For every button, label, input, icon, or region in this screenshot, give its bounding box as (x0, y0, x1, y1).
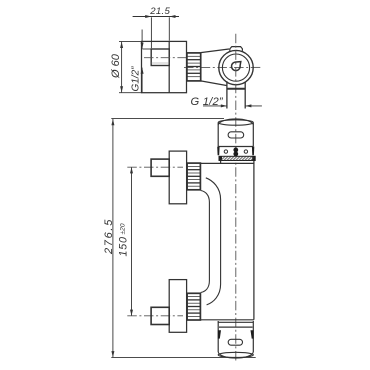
top bracket dome (218, 119, 253, 125)
svg-text:G 1/2”: G 1/2” (191, 96, 224, 108)
dimension D60 line (119, 41, 142, 92)
bottom valve centerline (127, 315, 183, 317)
vertical centerline (235, 34, 237, 363)
svg-text:±20: ±20 (120, 223, 127, 234)
top bracket sides (218, 123, 253, 147)
bottom valve body (169, 280, 186, 333)
main centerline top view (184, 66, 262, 68)
top bracket screws (224, 148, 247, 157)
top bracket wedges (217, 147, 254, 156)
bar circle outer top view (219, 50, 253, 84)
bottom valve knurl (187, 293, 200, 320)
dimension G1/2 bottom line (203, 104, 262, 107)
bottom bracket plate (218, 321, 254, 352)
dimension 150+-20 line (130, 167, 133, 316)
knurled ring top view (187, 53, 201, 81)
top bracket hatch band (219, 156, 255, 160)
tube outer edge (201, 191, 210, 293)
bar circle inner top view (222, 54, 249, 81)
top valve body (169, 151, 186, 204)
tube bottom line (200, 319, 254, 321)
bar right edge (253, 161, 255, 320)
svg-text:150: 150 (117, 236, 129, 256)
svg-text:21.5: 21.5 (149, 6, 170, 17)
top valve knurl (187, 163, 200, 190)
svg-text:Ø 60: Ø 60 (110, 53, 122, 79)
bottom bracket slot (228, 339, 242, 345)
bottom bracket wedges (218, 330, 254, 338)
hub top view (232, 62, 241, 71)
bracket tab top view (230, 47, 243, 51)
handle top view (143, 49, 170, 66)
top bracket slot (228, 132, 244, 138)
tube inner edge (206, 178, 221, 305)
svg-text:G1/2”: G1/2” (131, 66, 142, 92)
tube top line (200, 162, 254, 164)
bottom valve square (151, 307, 169, 324)
svg-text:276.5: 276.5 (103, 218, 115, 255)
bar left edge stub (220, 161, 222, 164)
dimension 276.5 line (111, 119, 255, 358)
outlet pipe top view (227, 81, 245, 108)
bottom bracket dome (218, 352, 253, 358)
valve body top view (142, 41, 187, 92)
dimension G1/2 left line (141, 30, 144, 93)
top valve square (151, 159, 169, 176)
cone top view (201, 49, 229, 86)
handle centerline top view (144, 57, 187, 59)
top valve centerline (127, 166, 183, 168)
dimension 21.5 line (133, 15, 179, 48)
